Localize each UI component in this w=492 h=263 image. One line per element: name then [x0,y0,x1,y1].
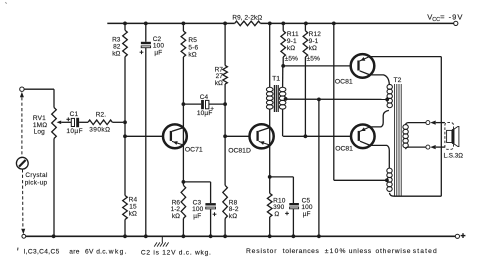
junction R8 earth [223,234,227,238]
svg-text:390kΩ: 390kΩ [89,127,110,134]
transformer T1 secondary winding [279,87,286,109]
wire lower OC81 collector to T2 lower winding top [370,145,389,168]
terminal speaker upper [426,121,430,125]
resistor R12 9.1k [303,23,308,136]
label Vcc = -9V [427,12,463,22]
transistor OC81 upper [351,54,375,78]
junction centre-tap earth [317,234,321,238]
label + terminal [461,233,466,238]
label R3 82k [112,36,121,57]
wire upper OC81 collector to T2 primary top [370,75,389,85]
label R11 9.1k 5% [285,31,299,62]
svg-text:C2 is 12V d.c. wkg.: C2 is 12V d.c. wkg. [141,249,212,256]
capacitor C4 10uF [183,100,225,112]
label T2 [394,77,402,84]
resistor R3 82k [123,23,128,122]
svg-text:kΩ: kΩ [112,51,120,58]
junction R5 top rail [182,22,186,26]
wire screened lead (dashed) upper [21,97,23,157]
svg-text:otherwise: otherwise [376,248,412,255]
svg-text:T2: T2 [394,77,402,84]
transformer T2 core [395,84,402,197]
wire OC71 collector-emitter chord [182,104,184,182]
junction R6 earth [182,234,186,238]
terminal Vcc [454,21,458,25]
label R5 5.6k [188,37,198,58]
junction T1 secondary centre tap [284,97,288,101]
capacitor C5 100uF [270,177,299,236]
junction R12 / lower base line [304,134,308,138]
wire top supply rail right section [260,22,453,24]
resistor R9 2.2k (series in rail) [235,21,261,26]
junction C5 earth [292,234,296,238]
label R2 390k [89,112,110,134]
svg-text:±5%: ±5% [285,56,298,63]
wire T2 lower winding bottom return [390,193,442,196]
resistor R8 8.2k [223,136,228,236]
svg-text:kΩ: kΩ [287,45,295,52]
label R10 390 [273,197,286,218]
connector arrow up at input [20,92,24,97]
wire RV1 bottom to earth rail [53,139,55,237]
junction OC71 collector / C4 [182,102,186,106]
svg-text:µF: µF [303,211,311,218]
wire T1 primary top lead [269,23,271,87]
svg-text:Resistor: Resistor [246,248,277,255]
label C5 100uF [301,197,313,218]
svg-text:kΩ: kΩ [309,45,317,52]
svg-text:VCC= -9V: VCC= -9V [427,12,463,22]
junction R4 earth [123,234,127,238]
svg-text:10µF: 10µF [66,128,83,135]
wire centre-tap line T1 to T2 [286,98,388,100]
wire base of OC81D [225,135,249,137]
svg-text:5-6: 5-6 [188,44,198,51]
label R12 9.1k 5% [307,31,322,62]
svg-text:wkg.: wkg. [108,248,128,255]
junction OC81D emitter node [268,175,272,179]
loudspeaker LS 3 ohm [445,123,459,150]
resistor R7 27k [223,23,228,104]
svg-text:pick-up: pick-up [25,179,48,186]
note capacitor working voltages [18,248,128,256]
junction T2 feed top rail [332,22,336,26]
junction T1 primary top rail [268,22,272,26]
svg-text:R9, 2-2kΩ: R9, 2-2kΩ [232,15,262,22]
stray mark top-left [5,2,7,3]
wire top supply rail left section (decoupled) [107,22,234,24]
transformer T2 primary upper winding [387,84,392,107]
wire upper OC81 emitter to right column [369,56,441,58]
svg-text:kΩ: kΩ [188,51,196,58]
wiper arrow of RV1 [57,121,72,125]
wire screened lead (dashed) lower [22,169,24,228]
terminal + supply [455,234,459,238]
resistor R11 9.1k [281,23,286,66]
junction T2 lower winding tap (supply) [385,178,389,182]
svg-text:OC81D: OC81D [228,148,251,155]
wire upper OC81 base [283,65,351,67]
capacitor C2 100uF [140,23,151,236]
label C1 10uF [66,111,83,135]
junction C3 earth [209,234,213,238]
svg-text:10µF: 10µF [197,110,213,117]
wire T2 secondary top to speaker [406,123,426,125]
resistor R2 390k [88,120,123,125]
junction OC71 base node [123,134,127,138]
wire lower OC81 emitter to T2 upper winding bottom [370,110,389,127]
junction OC71 emitter node [182,180,186,184]
svg-text:OC71: OC71 [185,146,203,153]
svg-text:R3: R3 [112,36,121,43]
label C3 100uF [192,199,204,220]
label LS 3 ohm [444,152,464,159]
wire bottom earth rail [26,235,456,237]
label OC81 lower [335,145,353,152]
transformer T1 core [274,85,278,112]
junction OC81D base node [223,134,227,138]
label R4 15k [129,197,138,218]
junction R3 top rail [123,22,127,26]
svg-text:R5: R5 [188,37,197,44]
label R8 8.2k [229,199,239,220]
resistor R5 5.6k [181,23,186,104]
label RV1 1M Log [33,115,47,136]
wire centre-tap to earth rail [318,99,320,236]
potentiometer RV1 1M log [52,108,57,139]
label C2 100uF 12V [153,36,165,57]
svg-text:±5%: ±5% [307,56,320,63]
svg-text:C4: C4 [200,94,209,101]
svg-text:OC81: OC81 [335,78,353,85]
svg-text:L.S.3Ω: L.S.3Ω [444,152,464,159]
wire supply feed down [333,23,335,180]
svg-text:Crystal: Crystal [25,172,47,179]
svg-text:µF: µF [154,50,162,57]
wire T1 secondary bottom lead [282,109,284,136]
transistor OC71 [163,124,187,148]
svg-text:6V: 6V [85,248,94,255]
svg-text:µF: µF [193,213,201,220]
junction C2 earth [144,234,148,238]
ground chassis symbol [154,236,168,246]
junction C4 / R7 / R8 [223,102,227,106]
label OC81D [228,148,251,155]
svg-text:R2.: R2. [96,112,107,119]
svg-text:±10%: ±10% [325,248,347,255]
wire base of OC71 [125,135,163,137]
junction R12 top rail [304,22,308,26]
label T1 [272,76,280,83]
transistor OC81 lower [351,125,375,149]
connector arrow down at input earth [21,229,25,234]
svg-text:kΩ: kΩ [215,80,223,87]
svg-text:unless: unless [349,248,372,255]
label OC71 [185,146,203,153]
wire R3-R4 column [124,122,126,136]
svg-text:Log: Log [34,129,46,136]
terminal speaker lower [426,145,430,149]
wire supply feed to T2 tap [334,179,387,181]
note C2 working voltage [141,249,212,256]
svg-text:I,C3,C4,C5: I,C3,C4,C5 [24,248,60,255]
junction R10 earth [268,234,272,238]
capacitor C1 10uF [66,117,88,127]
junction centre-tap line / earth column [317,98,321,102]
junction RV1 earth [52,234,56,238]
transformer T1 primary winding [266,87,273,109]
label R9 value [232,15,262,22]
svg-text:kΩ: kΩ [172,213,180,220]
connector arrow speaker lower [430,145,445,149]
wire input terminal to RV1 top [24,89,54,107]
svg-text:kΩ: kΩ [229,213,237,220]
terminal input top [20,87,24,91]
wire R7-R8 column [224,104,226,136]
transistor OC81D [250,124,274,148]
terminal input earth [22,234,26,238]
wire lower OC81 base [283,135,351,137]
junction C2 top rail [144,22,148,26]
svg-text:kΩ: kΩ [129,210,137,217]
svg-text:stated: stated [413,248,438,255]
junction T1 secondary top / R11 / upper base [281,64,285,68]
junction R7 top rail [223,22,227,26]
svg-text:OC81: OC81 [335,145,353,152]
wire T1 secondary top to bias node [282,66,284,87]
svg-text:82: 82 [113,43,121,50]
connector arrow speaker upper [430,121,445,125]
resistor R4 15k [123,136,128,236]
transformer T2 secondary winding [403,125,408,148]
junction R2/R3 [123,120,127,124]
svg-text:T1: T1 [272,76,280,83]
label OC81 upper [335,78,353,85]
crystal pick-up transducer [16,157,28,169]
label R6 1.2k [171,199,181,220]
note resistor tolerances [246,248,438,255]
capacitor C3 100uF [183,182,216,236]
label Crystal pick-up [25,172,48,186]
junction T2 upper winding tap [385,98,389,102]
wire T2 secondary bottom to speaker [406,147,426,149]
wire T1 primary bottom to OC81D collector-emitter [269,109,271,177]
junction R11 top rail [281,22,285,26]
svg-text:are: are [69,248,79,255]
svg-text:d.c.: d.c. [96,248,107,255]
label R7 27k [215,66,224,87]
resistor R6 1.2k [181,182,186,236]
svg-text:C1: C1 [70,111,79,118]
resistor R10 390 [267,177,272,236]
wire right return column [440,57,442,197]
svg-text:Ω: Ω [274,211,279,218]
transformer T2 primary lower winding [387,168,392,191]
svg-text:tolerances: tolerances [283,248,320,255]
label C4 10uF [197,94,213,117]
